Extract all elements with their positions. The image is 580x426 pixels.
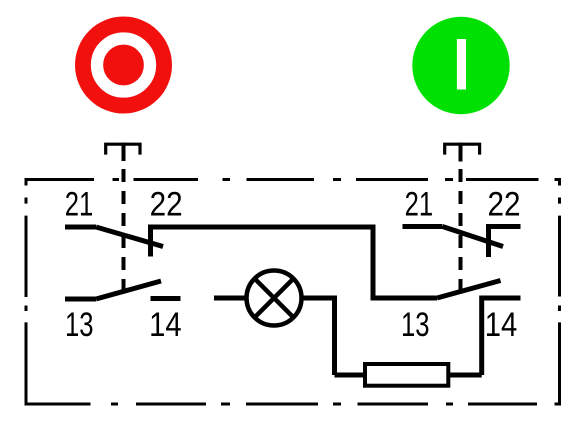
actuator dashed line S2	[459, 169, 463, 292]
start button S2 (green, I symbol)	[412, 17, 509, 114]
S1 NC terminal 22 + wire to S2 NO	[151, 227, 438, 298]
svg-text:13: 13	[401, 306, 430, 344]
S1 NO moving contact	[96, 281, 161, 299]
lamp P1 lead left	[214, 296, 247, 301]
stop button S1 (red, O symbol)	[75, 17, 172, 114]
svg-text:13: 13	[65, 306, 94, 344]
enclosure border left (dash-dot)	[25, 178, 28, 406]
S2 NC contact fixed lead 21	[403, 224, 443, 229]
S2 NC terminal 22	[489, 227, 521, 258]
enclosure border top (dash-dot)	[26, 178, 561, 181]
enclosure border bottom (dash-dot)	[26, 403, 561, 406]
S1 NC contact fixed lead 21	[65, 225, 96, 230]
svg-text:21: 21	[65, 186, 94, 224]
lamp P1 lead right down to resistor	[302, 298, 335, 375]
lamp P1	[247, 271, 302, 326]
actuator dashed line S1	[122, 169, 126, 294]
svg-text:21: 21	[405, 186, 434, 224]
S2 NO terminal 14 + lead to resistor	[482, 298, 521, 375]
enclosure border right (dash-dot)	[558, 178, 561, 406]
actuator bracket S1	[106, 143, 140, 161]
svg-text:22: 22	[150, 186, 183, 224]
S1 NC moving contact	[96, 227, 163, 247]
resistor R1 lead left	[335, 373, 366, 378]
S2 NC moving contact	[443, 227, 504, 247]
svg-text:22: 22	[488, 186, 521, 224]
resistor R1 lead right	[448, 373, 482, 378]
svg-text:14: 14	[485, 306, 518, 344]
S2 NO moving contact	[437, 281, 501, 299]
S1 NO contact fixed lead 13	[65, 297, 96, 302]
actuator bracket S2	[445, 143, 480, 162]
S1 NO terminal 14	[151, 296, 181, 301]
resistor R1	[365, 364, 448, 386]
svg-text:14: 14	[149, 306, 182, 344]
